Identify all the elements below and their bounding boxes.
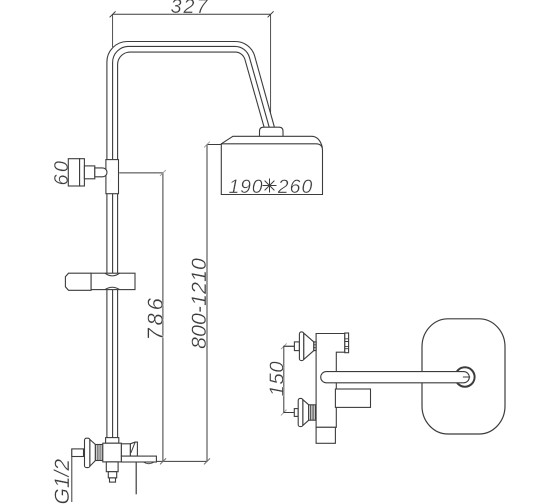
slider holder left knob [65, 273, 91, 290]
wall plate rounded rectangle [422, 319, 505, 434]
wall bracket plate [68, 159, 79, 186]
asterisk star in 190*260 [263, 179, 277, 193]
mixer top fitting cone [304, 333, 314, 359]
inlet nut ribs [97, 445, 101, 461]
valve body [103, 443, 122, 462]
dimension 327 line [113, 13, 271, 15]
mixer body [316, 334, 345, 428]
G1/2 label [51, 459, 74, 504]
svg-text:260: 260 [277, 176, 314, 198]
dimension 786 line [119, 173, 163, 462]
tick 786 bottom [160, 458, 166, 464]
mixer shelf [335, 389, 370, 407]
slider holder rail bulge top [105, 273, 120, 276]
mixer top fitting rib block [314, 342, 316, 351]
dimension 327 tick right [268, 11, 274, 17]
extension line right of 327 [270, 14, 272, 112]
shower arm middle line [113, 46, 270, 437]
mixer top fitting disc [299, 332, 303, 361]
tick 800-1210 bottom [204, 458, 210, 464]
shower arm outer line [107, 41, 275, 437]
outlet block 2 [108, 472, 116, 478]
svg-text:G1/2: G1/2 [51, 459, 74, 504]
valve handle base [121, 444, 130, 456]
G1/2 leader line [71, 449, 73, 502]
slider holder rail bulge bottom [105, 287, 120, 289]
svg-text:327: 327 [171, 0, 210, 18]
label 190*260 [229, 176, 314, 198]
inlet ribbed nut [95, 445, 102, 461]
tick 150 top [281, 343, 287, 349]
tick 786 top [160, 170, 166, 176]
mixer ribbed stub [345, 333, 349, 353]
hose line [135, 462, 137, 494]
valve handle blade edge [131, 442, 135, 453]
slider holder body [91, 273, 135, 289]
spout ring [455, 367, 474, 386]
mixer top fitting ribs [314, 342, 316, 351]
rail bottom collar [106, 438, 119, 444]
mixer bottom fitting rib block [309, 405, 316, 420]
mixer bottom cap [316, 427, 335, 443]
mixer bottom fitting small rect [294, 409, 298, 417]
spout bar [321, 372, 470, 383]
wall bracket label 60 [51, 159, 73, 186]
rail sleeve [106, 160, 119, 194]
mixer bottom fitting ribs [310, 405, 313, 420]
inlet cone [90, 440, 96, 467]
svg-text:786: 786 [143, 295, 168, 340]
mixer bottom fitting cone [303, 400, 309, 426]
outlet block 1 [106, 462, 118, 472]
dimension 327 text [171, 0, 210, 18]
mixer bottom fitting disc [298, 398, 303, 426]
shower arm inner line [118, 52, 265, 438]
dimension 800-1210 text [187, 258, 211, 349]
mixer top fitting stub line [284, 345, 295, 347]
dimension 786 text [143, 295, 168, 340]
svg-text:190: 190 [229, 176, 264, 198]
tick 150 bottom [281, 410, 287, 416]
wall bracket arm [95, 168, 107, 177]
outlet block 3 [110, 478, 116, 482]
dimension 800-1210 line [207, 145, 221, 462]
spout tip tick [463, 376, 470, 378]
inlet stub [72, 449, 84, 457]
wall shelf [121, 456, 156, 462]
tick 800-1210 top [204, 142, 210, 148]
inlet flange disc [85, 438, 90, 467]
svg-text:150: 150 [265, 361, 288, 397]
dimension 150 line [284, 346, 295, 412]
mixer stub ribs [345, 339, 349, 349]
valve handle blade [130, 442, 137, 456]
extension line left of 327 [112, 14, 114, 47]
wall bracket plate rim [80, 159, 85, 186]
shower head connector nub [260, 127, 284, 136]
svg-text:800-1210: 800-1210 [187, 258, 211, 349]
dimension bottom extension line [156, 460, 207, 462]
shelf under lip [143, 462, 154, 464]
wall bracket cylinder [84, 166, 94, 179]
dimension 327 tick left [110, 11, 116, 17]
dimension 150 text [265, 361, 288, 397]
mixer bottom fitting stub line [284, 412, 295, 414]
shower head top face [221, 136, 322, 147]
shower head body [221, 144, 322, 195]
mixer top fitting small rect [294, 342, 299, 351]
